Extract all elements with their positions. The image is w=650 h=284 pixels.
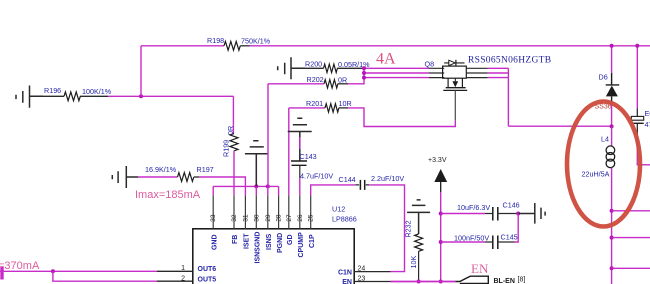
wire out branches [612,211,650,268]
wire +3.3V rail down [440,192,442,282]
capacitor C143 [291,137,333,181]
svg-text:100nF/50V: 100nF/50V [454,234,489,243]
pin EN [342,276,390,284]
node ISNSGND junction [254,184,258,188]
wire OUT6 from edge [0,270,157,272]
wire C145 to C146 [515,214,519,243]
wire pin30 stub top [256,186,268,195]
ground G2 (left of R197) [112,166,138,188]
svg-text:24: 24 [358,266,366,273]
svg-text:47: 47 [645,120,650,129]
svg-text:25: 25 [308,214,315,222]
svg-text:C1N: C1N [338,270,352,277]
node OUT split [51,269,55,273]
svg-text:=370mA: =370mA [0,260,40,272]
svg-text:GND: GND [211,234,218,250]
power arrow +3.3V [434,169,447,182]
wire GND bus [213,186,278,195]
node ISNS junction [266,184,270,188]
svg-text:BL-EN: BL-EN [494,278,515,284]
svg-text:26: 26 [297,214,304,222]
svg-text:23: 23 [358,276,366,283]
svg-text:RSS065N06HZGTB: RSS065N06HZGTB [468,56,551,66]
svg-text:R198: R198 [207,36,224,45]
wire R197 to ISET pin [199,177,245,195]
ground G1 (left of R196) [16,86,43,108]
wire R202 right to bus [348,68,364,84]
svg-text:C146: C146 [503,201,520,210]
wire EC down branch [637,135,650,165]
ground G5 (above C143) [288,118,312,161]
wire C144 to C1N [369,185,404,272]
svg-text:30: 30 [253,214,260,222]
svg-text:Q8: Q8 [425,60,435,69]
svg-text:R197: R197 [197,165,214,174]
ground G7 (above R232) [407,200,430,234]
svg-text:[8]: [8] [518,277,526,284]
resistor R197 [138,165,214,181]
wire down to R199 [232,96,234,133]
svg-text:R200: R200 [305,60,322,69]
wire R199 to FB pin [233,151,235,196]
wire rail left of R198 [141,45,224,47]
wire edge stub [0,267,3,280]
svg-text:R232: R232 [404,220,413,237]
svg-text:C144: C144 [339,175,356,184]
svg-text:+3.3V: +3.3V [428,157,447,164]
capacitor C144 [339,174,405,190]
svg-text:1: 1 [181,265,185,272]
svg-text:ISET: ISET [244,233,251,249]
resistor R201 [306,99,352,112]
svg-text:R196: R196 [44,86,61,95]
svg-text:OUT5: OUT5 [198,276,217,283]
svg-text:22uH/5A: 22uH/5A [582,170,610,179]
ground G4 (left of R200) [278,57,305,79]
svg-text:CPUMP: CPUMP [298,232,305,258]
node junction R196/R198 [139,94,143,98]
svg-text:29: 29 [265,214,272,222]
svg-text:ISNSGND: ISNSGND [255,232,262,264]
svg-text:EC: EC [645,109,650,118]
svg-text:750K/1%: 750K/1% [241,37,271,46]
inductor L4 [582,127,615,179]
node bus junctions [362,66,366,70]
transistor Q8 [425,60,468,91]
svg-text:4A: 4A [376,51,396,68]
wire EN net [391,281,456,283]
wire C1P up [311,185,356,195]
svg-text:2.2uF/10V: 2.2uF/10V [371,174,404,183]
svg-text:GD: GD [287,235,294,246]
wire drain lines [466,68,488,77]
svg-text:0R: 0R [226,126,235,135]
svg-text:33: 33 [210,214,217,222]
wire gate path [289,108,325,195]
svg-text:FB: FB [232,235,239,244]
svg-text:10uF/6.3V: 10uF/6.3V [457,203,490,212]
resistor R232 [404,220,423,281]
svg-text:Imax=185mA: Imax=185mA [135,189,201,201]
svg-text:OUT6: OUT6 [198,266,217,273]
capacitor EC (right edge electrolytic) [631,46,650,135]
svg-text:16.9K/1%: 16.9K/1% [145,165,177,174]
svg-text:PGND: PGND [277,233,284,253]
svg-text:LP8866: LP8866 [332,215,357,224]
IC U12 [193,205,357,284]
svg-text:EN: EN [342,279,352,284]
wire D6 to node [611,103,613,127]
svg-text:C145: C145 [501,233,518,242]
svg-text:EN: EN [471,261,489,276]
resistor R202 [307,75,349,88]
svg-text:ISNS: ISNS [266,233,273,250]
svg-text:4.7uF/10V: 4.7uF/10V [300,172,333,181]
svg-text:10R: 10R [339,99,352,108]
annotation red ellipse [567,102,640,227]
svg-text:32: 32 [231,214,238,222]
svg-text:R202: R202 [307,75,324,84]
svg-text:0R: 0R [338,76,347,85]
svg-text:C143: C143 [300,152,317,161]
diode D6 [599,46,620,103]
wire OUT5 branch [53,271,157,281]
pin OUT6 [157,265,216,273]
resistor R199 [222,126,239,157]
node SW [610,124,614,128]
svg-text:D6: D6 [599,73,608,82]
pin names top [211,232,316,264]
svg-text:31: 31 [242,214,249,222]
resistor R200 [305,60,370,73]
svg-text:L4: L4 [601,135,609,144]
svg-text:10K: 10K [409,256,418,269]
ground G6 (right of C146) [518,203,545,224]
wire R201 to gate [348,108,455,127]
wire C143 to CPUMP [299,178,301,195]
wire L4 down [611,168,613,284]
pin C1N [338,266,391,277]
svg-text:R201: R201 [306,99,323,108]
resistor R196 [43,86,112,101]
ground G3 (above pin30) [245,141,268,187]
svg-text:2: 2 [181,275,185,282]
svg-text:100K/1%: 100K/1% [82,87,112,96]
pin numbers top [210,214,315,222]
net flag BL-EN [455,276,525,284]
pin OUT5 [157,275,216,283]
svg-text:28: 28 [276,214,283,222]
wire triple source bus [364,68,429,77]
IC top pin stubs [213,195,311,229]
wire net FB horizontal [108,95,233,97]
svg-text:C1P: C1P [309,234,316,248]
capacitor C145 [441,233,518,250]
svg-text:U12: U12 [332,205,345,214]
resistor R198 [207,36,271,50]
wire R202 to ISNS [268,84,324,187]
svg-text:R199: R199 [222,140,231,157]
wire up to rail [140,46,142,97]
capacitor C146 [441,201,520,221]
svg-text:27: 27 [286,214,293,222]
wire top rail [250,45,650,47]
node out junctions [610,209,614,213]
